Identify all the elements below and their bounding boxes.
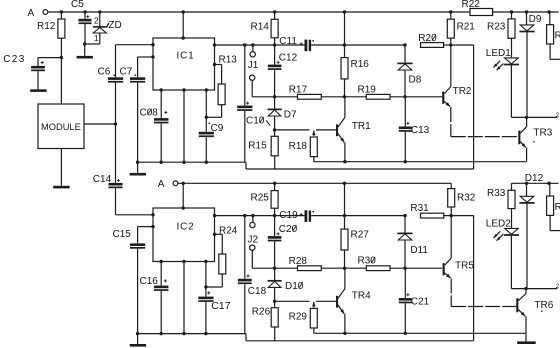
- svg-text:C17: C17: [211, 300, 230, 312]
- svg-text:C19: C19: [279, 210, 298, 221]
- svg-text:IC2: IC2: [177, 221, 195, 232]
- svg-text:R16: R16: [351, 59, 370, 70]
- svg-text:R30: R30: [358, 256, 377, 267]
- svg-text:C13: C13: [411, 125, 430, 136]
- svg-text:R15: R15: [248, 141, 267, 152]
- svg-text:C11: C11: [279, 36, 297, 47]
- svg-text:R21: R21: [457, 21, 476, 32]
- svg-text:D12: D12: [525, 173, 544, 184]
- svg-text:R28: R28: [289, 256, 308, 267]
- svg-text:IC1: IC1: [177, 51, 195, 62]
- svg-text:C18: C18: [248, 286, 267, 297]
- svg-text:C9: C9: [211, 123, 224, 134]
- svg-text:C7: C7: [120, 66, 133, 77]
- svg-text:A: A: [28, 8, 35, 19]
- svg-text:C5: C5: [71, 0, 84, 10]
- svg-text:R31: R31: [410, 203, 429, 214]
- svg-text:R12: R12: [37, 21, 56, 32]
- svg-text:R18: R18: [289, 141, 308, 152]
- svg-text:R: R: [555, 202, 560, 213]
- svg-text:TR2: TR2: [453, 86, 472, 97]
- svg-text:D9: D9: [529, 14, 542, 25]
- svg-text:2: 2: [94, 15, 99, 25]
- svg-text:LED1: LED1: [486, 48, 511, 59]
- svg-text:TR1: TR1: [352, 121, 371, 132]
- svg-text:1: 1: [94, 33, 99, 43]
- svg-text:MODULE: MODULE: [41, 122, 81, 132]
- svg-text:R29: R29: [289, 311, 308, 322]
- svg-text:J2: J2: [248, 235, 259, 246]
- svg-text:C21: C21: [411, 297, 430, 308]
- svg-text:R25: R25: [251, 193, 270, 204]
- svg-text:D8: D8: [409, 74, 422, 85]
- svg-text:D7: D7: [284, 109, 297, 120]
- svg-text:C10: C10: [246, 116, 265, 127]
- svg-text:R14: R14: [251, 21, 270, 32]
- svg-text:LED2: LED2: [486, 218, 511, 229]
- svg-text:TR4: TR4: [352, 290, 371, 301]
- svg-text:R33: R33: [487, 188, 506, 199]
- svg-text:C15: C15: [113, 229, 132, 240]
- svg-text:TR6: TR6: [534, 300, 553, 311]
- svg-text:R26: R26: [252, 306, 271, 317]
- svg-text:R27: R27: [351, 229, 370, 240]
- svg-text:TR3: TR3: [533, 127, 552, 138]
- svg-text:R32: R32: [457, 192, 476, 203]
- svg-text:R23: R23: [487, 21, 506, 32]
- svg-text:C12: C12: [279, 53, 298, 64]
- svg-text:C16: C16: [140, 276, 159, 287]
- svg-text:R24: R24: [219, 226, 238, 237]
- svg-text:J1: J1: [248, 60, 259, 71]
- svg-text:R13: R13: [219, 55, 238, 66]
- svg-text:C20: C20: [279, 224, 298, 235]
- svg-text:C6: C6: [98, 66, 111, 77]
- svg-text:R19: R19: [358, 84, 377, 95]
- svg-text:A: A: [158, 179, 165, 190]
- svg-text:R: R: [555, 31, 560, 42]
- svg-text:C23: C23: [3, 54, 26, 65]
- svg-text:R17: R17: [289, 85, 308, 96]
- svg-text:ZD: ZD: [108, 20, 121, 31]
- svg-text:R22: R22: [462, 0, 481, 10]
- svg-text:D11: D11: [410, 245, 428, 256]
- svg-text:TR5: TR5: [455, 261, 474, 272]
- svg-text:D10: D10: [285, 281, 304, 292]
